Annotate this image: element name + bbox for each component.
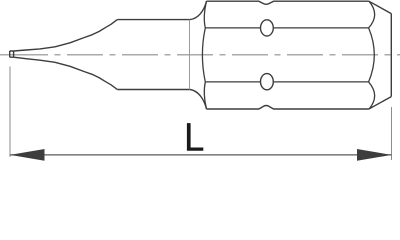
end chamfer arc front face xyxy=(369,28,375,82)
blade taper bottom edge xyxy=(14,57,118,89)
groove ellipse top xyxy=(261,20,274,36)
hex top outline with groove notch xyxy=(207,1,369,4)
flat tip box xyxy=(10,51,14,57)
hex entry chamfer arc front face xyxy=(202,28,205,82)
groove ellipse bottom xyxy=(261,74,274,90)
hex entry chamfer arc lower face xyxy=(204,82,206,109)
dimension label L xyxy=(187,123,203,151)
end face vertical line xyxy=(390,14,392,97)
blade taper top edge xyxy=(14,20,118,51)
extension line right xyxy=(391,107,393,160)
hex entry chamfer arc upper face xyxy=(204,1,206,28)
end chamfer bottom corner xyxy=(369,97,391,109)
hex bottom outline with groove notch xyxy=(207,106,369,110)
end chamfer arc upper face xyxy=(369,1,375,28)
grind transition vertical line xyxy=(189,20,191,90)
arrowhead right xyxy=(357,149,392,161)
body bottom line with fillet down to hex xyxy=(117,90,206,110)
end chamfer arc lower face xyxy=(369,82,375,109)
end chamfer top corner xyxy=(369,1,391,13)
centerline (axis) xyxy=(0,54,400,56)
arrowhead left xyxy=(10,149,45,161)
extension line left xyxy=(9,67,11,158)
hex top edge line xyxy=(205,27,368,29)
body top line with fillet up to hex xyxy=(117,1,206,19)
dimension line xyxy=(10,154,392,156)
hex bottom edge line xyxy=(205,81,368,83)
